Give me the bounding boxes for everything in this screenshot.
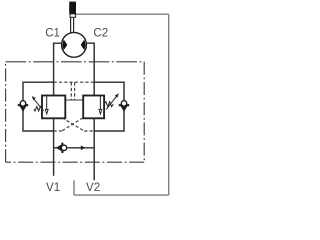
bottom flow arrow bbox=[81, 146, 86, 151]
svg-text:V2: V2 bbox=[86, 181, 100, 194]
check valve right (seat and ball) bbox=[119, 101, 129, 110]
wire left main lower bbox=[53, 118, 55, 176]
wire right check branch bbox=[94, 82, 124, 131]
enclosure dash-dot boundary bbox=[6, 62, 145, 162]
svg-text:C1: C1 bbox=[45, 26, 60, 39]
pilot gap connector bbox=[65, 99, 83, 101]
motor shaft black end bbox=[69, 2, 76, 14]
motor right wedge bbox=[81, 40, 86, 50]
wire C1 drop bbox=[54, 43, 62, 95]
right valve internal arrow bbox=[99, 96, 101, 109]
right adjust arrow bbox=[106, 96, 117, 110]
motor shaft double line bbox=[71, 17, 74, 32]
table cell border left stub bbox=[73, 180, 75, 195]
bottom check valve seat and ball bbox=[58, 143, 67, 153]
wire C2 drop bbox=[86, 43, 94, 95]
pilot dashed vertical a bbox=[70, 82, 72, 100]
check valve left (seat and ball) bbox=[18, 101, 28, 110]
motor circle bbox=[62, 32, 87, 57]
table cell border right bbox=[168, 14, 170, 195]
wire left check branch bbox=[23, 82, 54, 131]
pilot dashed stub right bbox=[84, 130, 94, 132]
pilot dashed stub left bbox=[54, 130, 62, 132]
pilot X dashed diagonal 2 bbox=[62, 118, 83, 131]
svg-text:V1: V1 bbox=[46, 181, 60, 194]
wire bottom connecting line bbox=[54, 147, 95, 149]
motor left wedge bbox=[63, 40, 68, 50]
counterbalance valve left square bbox=[42, 96, 65, 119]
motor shaft collar bbox=[70, 14, 75, 17]
table cell border bottom bbox=[74, 194, 169, 196]
pilot dashed top line bbox=[54, 81, 95, 83]
svg-text:C2: C2 bbox=[93, 26, 108, 39]
pilot X dashed diagonal 1 bbox=[62, 118, 84, 131]
pilot dashed vertical b bbox=[74, 82, 76, 100]
counterbalance valve right square bbox=[83, 96, 104, 119]
left adjust arrow bbox=[33, 98, 43, 111]
left valve internal arrow bbox=[46, 96, 48, 109]
left spring bbox=[34, 106, 42, 111]
table cell border top bbox=[76, 13, 169, 15]
wire right main lower bbox=[93, 118, 95, 180]
right spring bbox=[104, 102, 113, 107]
